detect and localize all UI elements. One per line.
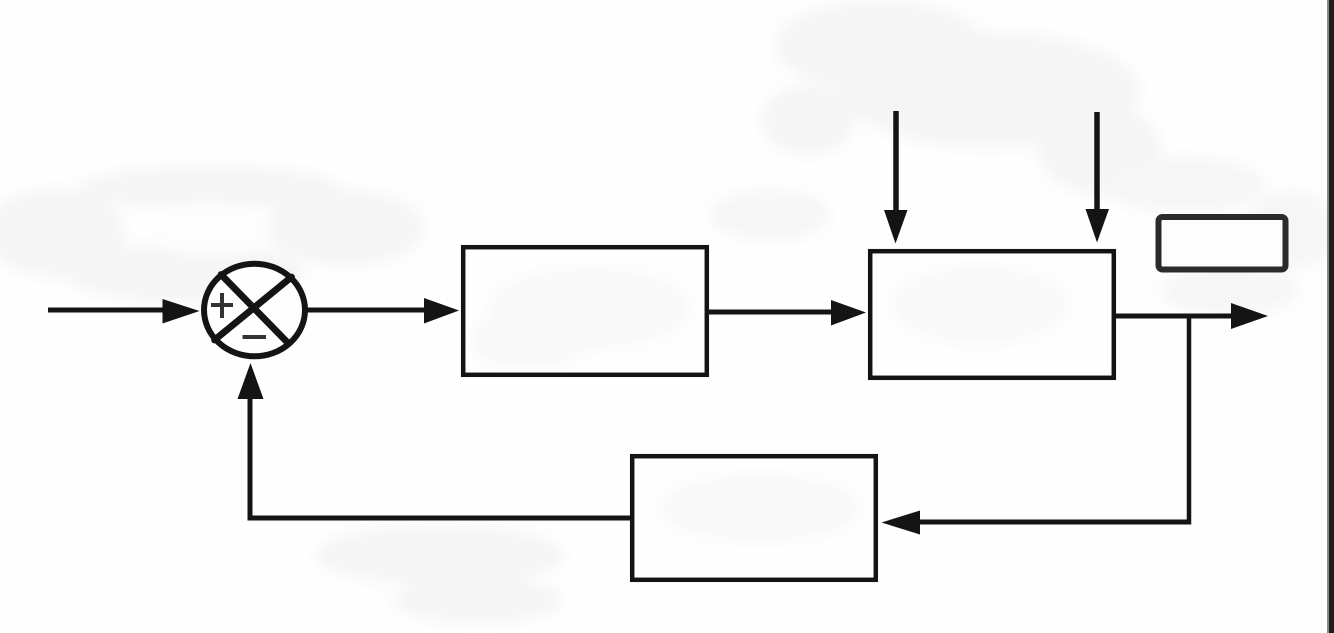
minus sign [243,335,267,339]
wire block1 to block2 [709,310,838,315]
disturbance arrow 1 (vertical into block2) [893,111,899,212]
block G2 (plant) [870,251,1114,378]
plus sign [211,293,233,318]
block H (feedback) [632,456,876,580]
erased-label smudge below block3 [315,525,565,623]
wire feedback takeoff vertical [1187,316,1192,525]
wire summing junction to block1 [306,308,430,313]
wire output from block2 [1116,314,1236,319]
summing junction circle [204,264,305,357]
scan edge dark strip right [1329,0,1334,633]
erased-label smudge near block2 top-right [1105,157,1334,315]
block G1 (controller) [463,247,707,375]
arrowhead up into summing junction [238,363,264,399]
erased-label smudge top-left [0,166,425,303]
X inside summing junction [215,275,292,344]
erased label inside block1 [470,268,690,368]
arrowhead into block1 [424,298,459,324]
disturbance arrow 2 (vertical into block2) [1094,112,1100,211]
output arrowhead [1231,303,1268,329]
erased label inside block2 [892,267,1068,343]
arrowhead into summing junction [163,299,200,324]
wire feedback vertical up to summing junction [248,398,253,521]
arrowhead into block2 [831,300,866,326]
erased-label smudge top-middle [762,0,1162,195]
arrowhead into block3 [882,511,921,535]
small empty label box top-right [1159,217,1286,270]
wire feedback horizontal to block3 [912,520,1191,525]
erased-label smudge between circle and block1 [710,190,830,240]
wire input line [48,308,168,313]
erased label inside block3 [660,475,860,541]
wire block3 to left [248,516,633,521]
